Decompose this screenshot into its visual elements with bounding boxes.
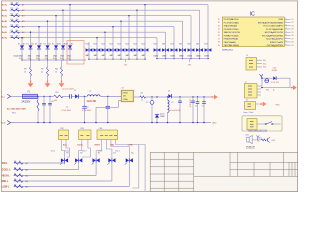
svg-text:4A7: 4A7	[94, 54, 97, 57]
svg-text:P1.1/T2EX-P4A00: P1.1/T2EX-P4A00	[224, 21, 239, 24]
svg-text:D5: D5	[168, 90, 170, 92]
svg-text:4.7uF 400V: 4.7uF 400V	[82, 110, 92, 112]
svg-text:Reset/TA/ag800/P20: Reset/TA/ag800/P20	[266, 38, 283, 41]
svg-text:mt1.2: mt1.2	[51, 150, 56, 153]
label under bus row3	[189, 59, 191, 62]
svg-text:4A7: 4A7	[118, 54, 121, 57]
svg-text:R4: R4	[14, 167, 16, 169]
wire row A2	[10, 9, 200, 11]
svg-text:COOL-L: COOL-L	[2, 170, 12, 172]
svg-text:BLINK: BLINK	[272, 70, 278, 72]
wire output row COOL-L	[14, 169, 79, 171]
fuse F1	[23, 94, 38, 98]
port arrow down at x=30.5	[30, 80, 32, 83]
wire drop staircase2 row6	[165, 32, 167, 45]
svg-text:URGACOM: URGACOM	[246, 145, 255, 148]
port arrow VCC out	[211, 96, 213, 98]
svg-text:R11: R11	[266, 90, 269, 92]
svg-text:P1.0/T2/AA-P3.00: P1.0/T2/AA-P3.00	[224, 18, 239, 21]
inductor L2	[167, 97, 169, 100]
svg-text:R7: R7	[14, 184, 16, 186]
svg-text:R8: R8	[24, 69, 26, 71]
wire output row XW-L	[14, 162, 65, 164]
svg-text:4A7: 4A7	[86, 54, 89, 57]
svg-text:mt1.2: mt1.2	[98, 150, 103, 153]
svg-text:1k: 1k	[55, 71, 57, 73]
svg-text:1k: 1k	[41, 71, 43, 73]
svg-text:1.5mH 0.2A: 1.5mH 0.2A	[170, 109, 181, 112]
svg-text:1N4: 1N4	[196, 43, 199, 45]
svg-text:330: 330	[54, 100, 57, 102]
wire output row LOW-L	[14, 186, 130, 188]
svg-text:24: 24	[291, 29, 293, 31]
wire drop to left diode column row7	[21, 38, 23, 43]
svg-text:Re6L: Re6L	[2, 32, 8, 34]
svg-text:5: 5	[285, 31, 286, 33]
highlight box (selection)	[67, 41, 84, 65]
svg-text:1N4: 1N4	[101, 43, 104, 45]
svg-text:C2: C2	[86, 107, 88, 109]
svg-text:1k: 1k	[273, 90, 275, 92]
svg-text:P0/CT/Ag800/TM20: P0/CT/Ag800/TM20	[267, 44, 283, 47]
resistor R8 snubber drop	[30, 60, 32, 67]
svg-text:Zener: Zener	[160, 112, 165, 115]
svg-text:1N4: 1N4	[133, 43, 136, 45]
svg-text:21: 21	[291, 19, 293, 21]
svg-text:19: 19	[218, 45, 220, 47]
triac T4	[108, 158, 111, 162]
svg-text:VD80: VD80	[278, 19, 283, 21]
TVS Z9	[154, 48, 157, 52]
svg-text:9013: 9013	[271, 140, 275, 142]
svg-text:1N4: 1N4	[170, 43, 173, 45]
svg-text:22: 22	[291, 22, 293, 24]
diode D1	[75, 94, 78, 98]
svg-text:1N40: 1N40	[170, 55, 175, 57]
TVS Z5	[120, 45, 122, 48]
svg-text:11: 11	[218, 19, 220, 21]
wire D5 to caps	[172, 96, 212, 98]
resistor R6	[11, 31, 20, 33]
svg-text:17: 17	[218, 38, 220, 40]
diode D7 vertical	[69, 42, 71, 45]
svg-text:1N4: 1N4	[109, 43, 112, 45]
svg-text:Re4L: Re4L	[2, 20, 8, 23]
svg-text:L1: L1	[89, 90, 91, 92]
svg-text:23: 23	[291, 25, 293, 27]
svg-text:1N4: 1N4	[141, 43, 144, 45]
connector J4	[247, 119, 257, 130]
bus under row 2	[89, 58, 145, 60]
svg-text:1N4: 1N4	[153, 43, 156, 45]
svg-text:(1): (1)	[26, 175, 29, 177]
svg-text:1N40: 1N40	[179, 55, 184, 57]
svg-text:4A7: 4A7	[134, 54, 137, 57]
wire fuse to R0	[38, 95, 54, 97]
svg-text:CN2: CN2	[60, 128, 64, 130]
diode D6 vertical	[62, 42, 64, 45]
svg-text:C3: C3	[146, 102, 148, 104]
svg-text:(1): (1)	[26, 169, 29, 171]
svg-text:AC:100V-240V 50Hz: AC:100V-240V 50Hz	[7, 107, 26, 110]
svg-text:10k: 10k	[16, 3, 19, 5]
sheet border frame	[1, 1, 297, 192]
svg-text:1N4: 1N4	[125, 43, 128, 45]
wire row A5	[10, 26, 175, 28]
wire R2 to rail2	[146, 96, 156, 98]
TVS Z11	[171, 48, 174, 52]
sheet background	[0, 0, 300, 194]
svg-text:D1: D1	[74, 90, 76, 92]
triac T1	[61, 158, 64, 162]
wire drop to left diode column row6	[30, 32, 32, 42]
svg-text:1N40: 1N40	[153, 55, 158, 57]
svg-text:Time Limit SW PCB: Time Limit SW PCB	[248, 129, 268, 132]
resistor bottom R6	[14, 180, 23, 183]
svg-text:R2: R2	[11, 8, 13, 10]
wire D1 to L1	[79, 95, 87, 97]
title block right grid	[230, 161, 298, 163]
TVS Z3	[104, 45, 106, 48]
svg-text:S1L: S1L	[263, 60, 266, 62]
wire ACL	[11, 95, 23, 97]
port arrow LED out	[291, 87, 293, 89]
svg-text:10k: 10k	[16, 30, 19, 32]
svg-text:14: 14	[218, 29, 220, 31]
diode D1 vertical	[21, 42, 23, 45]
wire row A3	[10, 15, 192, 17]
capacitor C6	[197, 96, 198, 97]
svg-text:(1): (1)	[26, 181, 29, 183]
svg-text:(1): (1)	[26, 186, 29, 188]
wire drop staircase2 row7	[156, 38, 158, 45]
title block outer	[150, 152, 297, 191]
group box time limit switch	[242, 116, 282, 131]
bottom rail wire	[11, 122, 211, 124]
svg-text:2: 2	[285, 21, 286, 23]
svg-text:1N40: 1N40	[162, 55, 167, 57]
wire drop staircase2 row5	[173, 27, 175, 45]
transistor Q1	[266, 139, 267, 141]
svg-text:XTAL0/WR0A00: XTAL0/WR0A00	[224, 25, 237, 28]
svg-text:1N4: 1N4	[187, 43, 190, 45]
svg-text:1k: 1k	[19, 167, 21, 169]
svg-text:1N4: 1N4	[179, 43, 182, 45]
svg-text:P0.1/CTL/AD1/CMAP70: P0.1/CTL/AD1/CMAP70	[263, 25, 283, 28]
resistor R9 snubber drop	[47, 60, 49, 67]
svg-text:13: 13	[218, 25, 220, 27]
wire drop staircase1 row2	[136, 10, 138, 45]
svg-text:10k: 10k	[16, 36, 19, 38]
svg-text:U2: U2	[122, 87, 124, 89]
wire output row HIGH-L	[14, 175, 97, 177]
diode D2 vertical	[30, 42, 32, 45]
svg-text:+5Vdc: +5Vdc	[123, 99, 128, 101]
TVS Z1	[88, 42, 90, 48]
svg-text:Re7L: Re7L	[2, 38, 8, 40]
TVS Z14	[196, 48, 199, 52]
LED DL1	[265, 79, 269, 83]
wire drop staircase2 row3	[190, 16, 192, 45]
svg-text:1N4: 1N4	[117, 43, 120, 45]
wire to D1	[71, 95, 75, 97]
resistor R5	[11, 26, 20, 28]
svg-text:3: 3	[285, 24, 286, 26]
wire row A1	[10, 4, 209, 6]
svg-text:R5: R5	[14, 173, 16, 175]
capacitor C1 electrolytic	[84, 96, 86, 106]
svg-text:1N40: 1N40	[187, 55, 192, 57]
capacitor CX2	[49, 96, 51, 103]
svg-text:R1: R1	[11, 3, 13, 5]
wire drop to left diode column row2	[62, 10, 64, 42]
svg-text:26: 26	[291, 35, 293, 37]
title block left grid	[150, 159, 194, 161]
svg-text:P0.2/CT/Ag800/WA0: P0.2/CT/Ag800/WA0	[266, 28, 283, 31]
svg-text:Re3L: Re3L	[2, 16, 8, 18]
svg-text:1k: 1k	[19, 179, 21, 181]
svg-text:16: 16	[218, 35, 220, 37]
capacitor C5	[192, 96, 193, 97]
svg-text:4A7: 4A7	[126, 54, 129, 57]
svg-text:R9: R9	[41, 69, 43, 71]
wire drop staircase1 row4	[120, 21, 122, 45]
TVS Z8	[144, 45, 146, 48]
svg-text:XW-L: XW-L	[2, 163, 8, 165]
svg-text:15: 15	[218, 32, 220, 34]
svg-text:10k: 10k	[16, 19, 19, 21]
svg-text:5V6M: 5V6M	[160, 116, 165, 118]
capacitor C2 electrolytic	[107, 96, 109, 106]
label under bus row2	[125, 59, 127, 62]
svg-text:COOL: COOL	[77, 144, 84, 146]
wire drop staircase2 row1	[207, 5, 209, 45]
svg-text:CA2/TEA1-2MH00: CA2/TEA1-2MH00	[224, 44, 239, 47]
TVS Z4	[112, 45, 114, 48]
svg-text:4.7uF 400V: 4.7uF 400V	[62, 110, 72, 112]
wire L1 to U2	[100, 95, 121, 97]
svg-text:1mH 1W: 1mH 1W	[87, 100, 97, 103]
svg-text:4: 4	[285, 28, 286, 30]
wire drop staircase1 row7	[96, 38, 98, 45]
bus under row 3	[157, 58, 208, 60]
svg-text:PM2: PM2	[276, 105, 280, 107]
svg-text:MID-L: MID-L	[2, 181, 9, 183]
diode D6	[273, 76, 276, 80]
IC U1 body	[222, 17, 284, 47]
resistor R3	[11, 15, 20, 17]
port arrow down at x=47.5	[47, 80, 49, 83]
wire drop to left diode column row4	[47, 21, 49, 42]
regulator module U2	[121, 90, 133, 101]
resistor R4	[11, 20, 20, 22]
wire drop to left diode column row1	[69, 5, 71, 43]
svg-text:SEA/T0/CLKOUT00: SEA/T0/CLKOUT00	[224, 31, 240, 34]
Vcc antenna symbol	[259, 74, 263, 76]
capacitor C1 series	[69, 94, 71, 98]
svg-text:J2: J2	[245, 81, 247, 83]
svg-text:1k: 1k	[141, 100, 143, 102]
svg-text:Re2L: Re2L	[2, 10, 8, 12]
svg-text:4A7: 4A7	[110, 54, 113, 57]
svg-text:1k: 1k	[19, 173, 21, 175]
svg-text:AD/CT/Ag80/PC0-P00: AD/CT/Ag80/PC0-P00	[265, 31, 283, 34]
svg-text:R2: R2	[141, 93, 143, 95]
svg-text:ACL: ACL	[1, 95, 5, 98]
svg-text:C7: C7	[202, 106, 204, 108]
triac T2	[75, 158, 78, 162]
svg-text:2A/250V: 2A/250V	[22, 101, 31, 104]
svg-text:AT89C2051: AT89C2051	[222, 48, 233, 51]
svg-text:mt1.2: mt1.2	[82, 150, 87, 153]
resistor R7	[11, 37, 20, 39]
svg-text:1k: 1k	[19, 161, 21, 163]
TVS Z6	[128, 45, 130, 48]
resistor RA snubber drop	[61, 60, 63, 67]
resistor bottom R5	[14, 174, 23, 177]
resistor R0	[54, 95, 64, 98]
triac T3	[93, 158, 96, 162]
svg-text:1: 1	[285, 18, 286, 20]
svg-text:B7A/CT7/ad870: B7A/CT7/ad870	[270, 41, 283, 44]
svg-text:7: 7	[285, 37, 286, 39]
wire drop staircase1 row1	[144, 5, 146, 45]
svg-text:HIGH-L: HIGH-L	[2, 176, 11, 178]
switch SW1	[257, 123, 265, 125]
resistor bottom R3	[14, 162, 23, 165]
svg-text:1N4: 1N4	[204, 43, 207, 45]
svg-text:CN4: CN4	[99, 128, 103, 130]
svg-text:Re5L: Re5L	[2, 27, 8, 29]
svg-text:10k: 10k	[16, 8, 19, 10]
svg-text:29: 29	[291, 45, 293, 47]
resistor R1	[11, 4, 20, 6]
wire rail to D5	[155, 96, 168, 98]
triac T5	[126, 158, 129, 162]
svg-text:BZ1: BZ1	[246, 135, 249, 137]
inductor L1	[87, 95, 100, 97]
svg-text:MID: MID	[110, 144, 114, 146]
svg-text:C1: C1	[66, 107, 68, 109]
svg-text:C5: C5	[195, 106, 197, 108]
wire drop staircase2 row4	[182, 21, 184, 45]
svg-text:P2/WAIT/TCM000: P2/WAIT/TCM000	[224, 34, 239, 37]
svg-text:DRaS: DRaS	[123, 93, 129, 95]
svg-text:mt1.2: mt1.2	[65, 150, 70, 153]
svg-text:CN3: CN3	[80, 128, 84, 130]
svg-text:6: 6	[285, 34, 286, 36]
svg-text:4A7: 4A7	[102, 54, 105, 57]
capacitor C3	[151, 97, 153, 101]
svg-text:12: 12	[218, 22, 220, 24]
LED loop wires	[261, 78, 273, 86]
svg-text:1k: 1k	[19, 184, 21, 186]
wire output row MID-L	[14, 180, 112, 182]
TVS Z2	[96, 45, 98, 48]
svg-text:C4 470uF: C4 470uF	[189, 99, 191, 108]
diode D3 vertical	[38, 42, 40, 45]
svg-text:J1: J1	[246, 55, 248, 57]
svg-text:18: 18	[218, 42, 220, 44]
wire R0 to CX	[63, 95, 70, 97]
diode D4 vertical	[47, 42, 49, 45]
wire row A7	[10, 37, 158, 39]
resistor bottom R7	[14, 185, 23, 188]
svg-text:CA0/TCA0A00: CA0/TCA0A00	[224, 41, 236, 44]
svg-text:GND: GND	[212, 123, 217, 125]
TVS Z13	[188, 48, 191, 52]
wire row A6	[10, 31, 166, 33]
svg-text:Connor 1000V: Connor 1000V	[62, 89, 74, 91]
svg-text:10k: 10k	[16, 25, 19, 27]
svg-text:R7: R7	[11, 36, 13, 38]
svg-text:4A7: 4A7	[142, 54, 145, 57]
wire drop to left diode column row3	[55, 16, 57, 43]
diode D5	[168, 94, 171, 98]
wire drop staircase1 row3	[128, 16, 130, 45]
svg-text:S3L: S3L	[263, 67, 266, 69]
svg-text:RST/TA/AD/PC/RA7B0/TAM80: RST/TA/AD/PC/RA7B0/TAM80	[258, 21, 283, 24]
svg-text:1k: 1k	[24, 71, 26, 73]
svg-text:R3: R3	[14, 161, 16, 163]
svg-text:R6: R6	[14, 179, 16, 181]
svg-text:4.7uF 16V: 4.7uF 16V	[271, 82, 280, 84]
TVS Z12	[179, 48, 182, 52]
svg-text:mt1.2: mt1.2	[115, 150, 120, 153]
svg-text:Re1L: Re1L	[2, 5, 8, 7]
wire drop staircase2 row2	[199, 10, 201, 45]
svg-text:P0/CT/Ag8/PW2/CMP800: P0/CT/Ag8/PW2/CMP800	[262, 34, 283, 37]
wires connector to triacs	[61, 144, 64, 157]
resistor bottom R4	[14, 168, 23, 171]
wire drop staircase1 row6	[104, 32, 106, 45]
TVS Z15	[205, 48, 208, 52]
svg-text:1N40: 1N40	[204, 55, 209, 57]
svg-text:1N4: 1N4	[85, 43, 88, 45]
svg-text:25: 25	[291, 32, 293, 34]
wire drop to left diode column row5	[38, 27, 40, 43]
bottom bus of diode group	[21, 59, 86, 61]
capacitor CX1	[43, 96, 45, 103]
wire drop staircase1 row5	[112, 27, 114, 45]
wire U2 down pin	[119, 100, 122, 102]
svg-text:27: 27	[291, 38, 293, 40]
svg-text:LOW-L: LOW-L	[2, 187, 10, 189]
resistor R2	[140, 96, 146, 98]
svg-text:8: 8	[285, 41, 286, 43]
svg-text:ACN: ACN	[1, 122, 6, 125]
svg-text:LOW: LOW	[128, 144, 133, 146]
wire row A4	[10, 20, 183, 22]
svg-text:28: 28	[291, 42, 293, 44]
Vcc symbol buzzer	[256, 135, 259, 137]
svg-text:P3.0/RXD-P2M00: P3.0/RXD-P2M00	[224, 29, 239, 31]
wire U2 out	[133, 96, 140, 98]
zener ZD1	[156, 97, 158, 110]
svg-text:9: 9	[285, 44, 286, 46]
svg-text:S2L: S2L	[263, 63, 266, 65]
resistor R2	[11, 9, 20, 11]
svg-text:10k: 10k	[16, 14, 19, 16]
svg-text:1N40: 1N40	[196, 55, 201, 57]
svg-text:1N4: 1N4	[93, 43, 96, 45]
svg-text:R6: R6	[11, 30, 13, 32]
svg-text:HIGH: HIGH	[95, 144, 101, 146]
TVS Z7	[136, 45, 138, 48]
wire loop right	[261, 78, 290, 87]
svg-text:R3: R3	[11, 14, 13, 16]
capacitor C7	[203, 96, 204, 97]
